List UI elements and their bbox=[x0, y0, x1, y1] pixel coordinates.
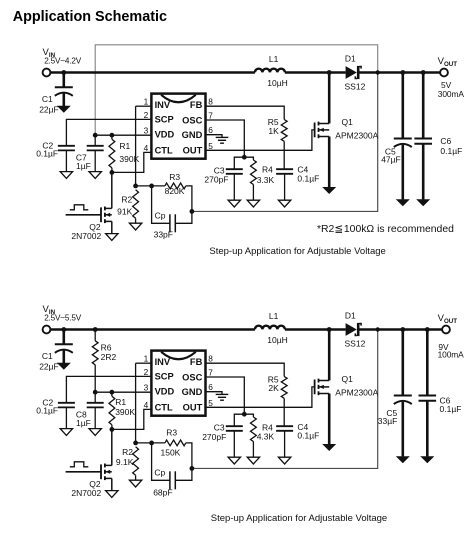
svg-text:3.3K: 3.3K bbox=[257, 175, 275, 185]
svg-text:2: 2 bbox=[144, 367, 149, 377]
svg-text:Step-up Application for Adjust: Step-up Application for Adjustable Volta… bbox=[209, 246, 385, 257]
svg-text:R2: R2 bbox=[121, 194, 132, 204]
svg-text:0.1µF: 0.1µF bbox=[36, 405, 58, 415]
svg-text:Application Schematic: Application Schematic bbox=[13, 9, 167, 25]
svg-text:R3: R3 bbox=[166, 428, 177, 438]
svg-text:0.1µF: 0.1µF bbox=[297, 174, 319, 184]
svg-text:D1: D1 bbox=[345, 54, 356, 64]
svg-text:7: 7 bbox=[208, 111, 213, 121]
svg-text:0.1µF: 0.1µF bbox=[440, 404, 462, 414]
svg-text:2.5V~5.5V: 2.5V~5.5V bbox=[44, 313, 82, 322]
svg-text:D1: D1 bbox=[345, 311, 356, 321]
svg-text:OSC: OSC bbox=[182, 372, 202, 382]
svg-text:4.3K: 4.3K bbox=[257, 431, 275, 441]
svg-text:68pF: 68pF bbox=[153, 487, 172, 497]
svg-text:10µH: 10µH bbox=[267, 335, 288, 345]
svg-text:390K: 390K bbox=[115, 407, 135, 417]
svg-text:C1: C1 bbox=[42, 351, 53, 361]
svg-text:7: 7 bbox=[208, 368, 213, 378]
svg-text:5: 5 bbox=[208, 141, 213, 151]
svg-text:CTL: CTL bbox=[155, 145, 173, 155]
svg-text:FB: FB bbox=[190, 357, 203, 367]
svg-text:SCP: SCP bbox=[155, 114, 174, 124]
svg-text:VDD: VDD bbox=[155, 387, 175, 397]
svg-text:SS12: SS12 bbox=[345, 338, 366, 348]
svg-text:Step-up Application for Adjust: Step-up Application for Adjustable Volta… bbox=[211, 513, 387, 524]
svg-text:9.1K: 9.1K bbox=[116, 457, 134, 467]
svg-text:270pF: 270pF bbox=[204, 174, 228, 184]
svg-text:VDD: VDD bbox=[155, 130, 175, 140]
svg-text:R1: R1 bbox=[115, 397, 126, 407]
svg-text:300mA: 300mA bbox=[438, 89, 465, 99]
svg-text:8: 8 bbox=[208, 97, 213, 107]
svg-text:2K: 2K bbox=[268, 383, 279, 393]
svg-text:5: 5 bbox=[208, 398, 213, 408]
svg-text:10µH: 10µH bbox=[267, 78, 288, 88]
svg-text:91K: 91K bbox=[117, 207, 132, 217]
svg-text:2R2: 2R2 bbox=[101, 352, 117, 362]
svg-text:1: 1 bbox=[144, 97, 149, 107]
svg-text:*R2≦ 100kΩ is recommended: *R2≦ 100kΩ is recommended bbox=[317, 224, 454, 235]
svg-text:CTL: CTL bbox=[155, 402, 173, 412]
svg-text:APM2300A: APM2300A bbox=[335, 387, 378, 397]
svg-text:3: 3 bbox=[144, 126, 149, 136]
svg-text:8: 8 bbox=[208, 354, 213, 364]
svg-text:2N7002: 2N7002 bbox=[71, 488, 101, 498]
svg-text:22µF: 22µF bbox=[39, 362, 59, 372]
svg-text:R3: R3 bbox=[169, 172, 180, 182]
svg-text:Cp: Cp bbox=[155, 211, 166, 221]
svg-text:R2: R2 bbox=[122, 447, 133, 457]
svg-text:2.5V~4.2V: 2.5V~4.2V bbox=[44, 56, 82, 65]
svg-text:6: 6 bbox=[208, 382, 213, 392]
svg-text:6: 6 bbox=[208, 125, 213, 135]
svg-text:0.1µF: 0.1µF bbox=[440, 146, 462, 156]
svg-text:390K: 390K bbox=[119, 154, 139, 164]
svg-text:820K: 820K bbox=[165, 186, 185, 196]
svg-text:Q1: Q1 bbox=[342, 117, 354, 127]
svg-text:0.1µF: 0.1µF bbox=[36, 148, 58, 158]
svg-text:APM2300A: APM2300A bbox=[335, 130, 378, 140]
svg-text:1K: 1K bbox=[268, 126, 279, 136]
svg-text:C3: C3 bbox=[214, 423, 225, 433]
svg-text:33µF: 33µF bbox=[378, 416, 398, 426]
svg-text:SS12: SS12 bbox=[345, 81, 366, 91]
svg-text:L1: L1 bbox=[269, 311, 279, 321]
svg-text:C1: C1 bbox=[42, 94, 53, 104]
svg-text:1: 1 bbox=[144, 354, 149, 364]
svg-text:0.1µF: 0.1µF bbox=[297, 431, 319, 441]
svg-text:1µF: 1µF bbox=[76, 161, 91, 171]
svg-text:2N7002: 2N7002 bbox=[71, 231, 101, 241]
svg-text:OUT: OUT bbox=[183, 145, 203, 155]
svg-text:3: 3 bbox=[144, 383, 149, 393]
svg-text:100mA: 100mA bbox=[438, 350, 465, 360]
svg-text:22µF: 22µF bbox=[39, 105, 59, 115]
svg-text:Q1: Q1 bbox=[342, 374, 354, 384]
svg-text:OUT: OUT bbox=[183, 402, 203, 412]
svg-text:4: 4 bbox=[144, 143, 149, 153]
svg-text:C6: C6 bbox=[440, 136, 451, 146]
svg-text:OSC: OSC bbox=[182, 115, 202, 125]
svg-text:FB: FB bbox=[190, 100, 203, 110]
svg-text:4: 4 bbox=[144, 400, 149, 410]
svg-text:150K: 150K bbox=[161, 448, 181, 458]
svg-text:47µF: 47µF bbox=[381, 155, 401, 165]
svg-text:Cp: Cp bbox=[154, 468, 165, 478]
svg-text:1µF: 1µF bbox=[76, 418, 91, 428]
svg-text:2: 2 bbox=[144, 110, 149, 120]
svg-text:L1: L1 bbox=[269, 54, 279, 64]
svg-text:GND: GND bbox=[182, 387, 203, 397]
svg-text:SCP: SCP bbox=[155, 371, 174, 381]
svg-text:INV: INV bbox=[155, 100, 171, 110]
svg-text:270pF: 270pF bbox=[202, 432, 226, 442]
svg-text:R4: R4 bbox=[262, 165, 273, 175]
svg-text:33pF: 33pF bbox=[154, 230, 173, 240]
svg-text:INV: INV bbox=[155, 357, 171, 367]
svg-text:R1: R1 bbox=[119, 141, 130, 151]
svg-text:GND: GND bbox=[182, 130, 203, 140]
